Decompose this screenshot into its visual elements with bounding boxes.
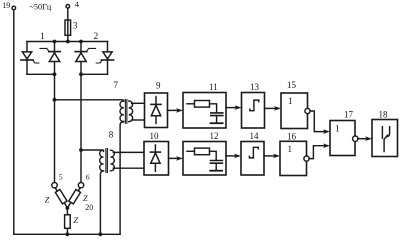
wire block1 left branch [26, 42, 28, 75]
arrow block14 to block16 [264, 155, 274, 157]
resistor R11 [195, 101, 210, 108]
svg-text:5: 5 [59, 172, 63, 181]
svg-text:12: 12 [210, 131, 219, 141]
wire block2 left branch [80, 42, 82, 75]
node tap to transformer 7 [53, 98, 57, 102]
transformer T7 core [125, 99, 127, 123]
wire block2 right branch [107, 42, 109, 75]
wire terminal 4 to top rail through fuse [67, 8, 69, 41]
step symbol in block 14 [249, 147, 258, 158]
svg-text:1: 1 [40, 32, 45, 42]
capacitor C12 [210, 161, 222, 164]
wire block15 output to block17 input [310, 111, 325, 132]
svg-text:17: 17 [344, 110, 354, 120]
arrow block12 to block14 [226, 155, 236, 157]
wire terminal 6 diagonal to star point [67, 188, 80, 208]
wire resistor to capacitor C12 [210, 151, 217, 160]
wire bottom rail [14, 233, 120, 235]
terminal 5 [52, 183, 57, 188]
terminal 4 [66, 5, 70, 9]
wire capacitor C12 to ground [215, 164, 217, 170]
wire block1 bottom rail [27, 73, 55, 75]
svg-text:18: 18 [379, 110, 389, 120]
node block1 bottom [53, 72, 57, 76]
arrow block13 to block15 [265, 107, 276, 109]
svg-text:15: 15 [287, 80, 297, 90]
wire T8 secondary bottom to block 10 [113, 167, 144, 169]
svg-text:16: 16 [287, 132, 297, 142]
wire resistor to capacitor C11 [210, 104, 217, 112]
impedance Z20 vertical [65, 215, 71, 229]
thyristor VS3 (up) [75, 48, 95, 61]
node rail x54.5 [53, 40, 57, 44]
fuse F3 [65, 20, 71, 35]
wire T7 secondary bottom to block 9 [132, 119, 145, 121]
inversion bubble block 15 [305, 108, 310, 113]
transformer T7 primary feed wire [55, 100, 124, 101]
wire block2 bottom rail [81, 73, 108, 75]
wire top rail [27, 41, 108, 43]
relay contact symbol in block 18 [382, 127, 389, 152]
block 15 logic box [281, 93, 308, 129]
impedance Z right (element 6 arm) [69, 190, 81, 204]
transformer T8 secondary winding [111, 150, 115, 171]
block 10 rectifier box [144, 142, 169, 176]
thyristor VS4 (down) [96, 52, 113, 63]
svg-text:6: 6 [86, 172, 90, 181]
svg-text:1: 1 [335, 124, 340, 134]
block 18 output contact box [372, 120, 398, 157]
svg-text:Z: Z [73, 215, 78, 225]
inversion bubble block 17 [353, 136, 358, 141]
ground bar in block 11 [211, 122, 223, 124]
svg-text:4: 4 [75, 0, 80, 9]
wire T8 primary bottom to bottom rail [100, 171, 103, 235]
svg-text:14: 14 [250, 131, 260, 141]
block 9 rectifier box [145, 93, 168, 128]
svg-text:9: 9 [156, 81, 161, 91]
svg-text:8: 8 [109, 130, 114, 140]
thyristor VS1 (down) [21, 52, 39, 63]
capacitor C11 [211, 113, 223, 116]
diode in block 10 [150, 145, 160, 171]
svg-text:11: 11 [209, 82, 218, 92]
svg-text:3: 3 [73, 20, 78, 30]
terminal 6 [78, 183, 83, 188]
wire T8 secondary top to block 10 [113, 151, 144, 153]
transformer T8 core [106, 149, 108, 173]
arrow block10 to block12 [169, 157, 178, 159]
wire branch x81 down to terminal 6 [80, 74, 82, 182]
arrow block17 to block18 [358, 138, 367, 140]
wire block1 right branch [54, 42, 56, 75]
terminal 19 [12, 6, 16, 10]
svg-text:20: 20 [85, 203, 93, 212]
inversion bubble block 16 [304, 156, 309, 161]
block 13 threshold box [242, 93, 265, 129]
wire left bus from terminal 19 down to bottom rail [13, 10, 15, 234]
node star point [66, 206, 70, 210]
ground bar in block 12 [210, 170, 222, 172]
wire block16 output to block17 input [309, 146, 325, 159]
arrow block11 to block13 [226, 107, 236, 109]
svg-text:13: 13 [250, 82, 260, 92]
node T8 primary to rail [99, 232, 103, 236]
wire capacitor to ground [216, 116, 218, 122]
transformer T7 secondary winding [129, 101, 133, 122]
block 16 logic box [280, 141, 307, 175]
step symbol in block 13 [250, 100, 259, 111]
svg-text:Z: Z [45, 194, 50, 204]
wire terminal 5 diagonal to star point [55, 188, 67, 208]
node tap to transformer 8 [79, 148, 83, 152]
wire branch x54.5 down to terminal 5 [54, 74, 56, 182]
arrow block9 to block11 [168, 109, 178, 111]
wire T7 secondary top to block 9 [132, 102, 145, 104]
svg-text:Z: Z [83, 193, 88, 203]
svg-text:10: 10 [150, 131, 160, 141]
transformer T7 primary winding [120, 101, 124, 122]
block 17 logic box [330, 121, 355, 156]
svg-text:1: 1 [288, 144, 293, 154]
svg-text:~50Гц: ~50Гц [30, 2, 52, 11]
thyristor VS2 (up) [40, 48, 60, 61]
resistor R12 [195, 148, 210, 155]
impedance Z left (element 5 arm) [55, 190, 67, 204]
block 14 threshold box [241, 142, 264, 176]
svg-text:7: 7 [114, 80, 119, 90]
node fuse-rail junction [66, 40, 70, 44]
transformer T8 primary winding [100, 150, 104, 171]
block 12 filter box [183, 142, 226, 176]
node Z20 to rail [66, 232, 70, 236]
wire into resistor R11 [187, 103, 195, 105]
node block2 bottom [79, 72, 83, 76]
svg-text:1: 1 [288, 96, 293, 106]
block 11 filter box [183, 93, 226, 129]
transformer T8 primary feed wire [81, 150, 104, 151]
wire star point down to rail [66, 208, 68, 234]
wire into resistor R12 [187, 150, 195, 152]
diode in block 9 [151, 97, 161, 124]
node rail x81 [79, 40, 83, 44]
wire T7 primary bottom to bottom rail [120, 122, 124, 235]
svg-text:19: 19 [2, 1, 10, 10]
svg-text:2: 2 [94, 32, 99, 42]
